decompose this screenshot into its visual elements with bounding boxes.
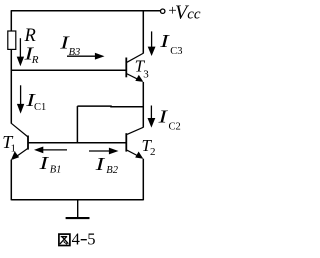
- svg-text:3: 3: [143, 68, 149, 80]
- svg-text:I: I: [157, 107, 168, 127]
- current arrow I_B1: [43, 149, 67, 151]
- current arrow I_C1: [20, 85, 22, 104]
- current arrow I_B3: [67, 55, 96, 57]
- svg-text:2: 2: [150, 146, 156, 158]
- wire left branch upper: [10, 11, 12, 32]
- terminal +Vcc: [161, 9, 165, 13]
- transistor T3: [126, 53, 143, 81]
- transistor T1 (mirrored, base bar on right): [11, 123, 28, 159]
- current arrow I_C2: [150, 106, 152, 119]
- T2 emitter arrowhead: [135, 152, 143, 159]
- ground: [77, 200, 79, 218]
- T1 emitter arrowhead: [11, 151, 19, 160]
- T3 emitter arrowhead: [135, 75, 143, 82]
- svg-text:C1: C1: [34, 102, 46, 113]
- svg-text:I: I: [94, 154, 105, 174]
- wire right branch lower: [142, 159, 144, 201]
- caption glyph 图: [59, 234, 70, 245]
- wire bottom rail: [11, 199, 143, 201]
- svg-text:I: I: [159, 31, 170, 51]
- svg-text:R: R: [31, 54, 39, 66]
- wire top rail: [11, 10, 161, 12]
- current arrow I_B2: [89, 150, 109, 152]
- wire left branch middle: [10, 49, 12, 123]
- svg-text:B3: B3: [69, 47, 81, 58]
- wire L-link horizontal: [77, 105, 143, 108]
- svg-text:5: 5: [87, 229, 95, 248]
- svg-text:I: I: [38, 153, 49, 173]
- wire base rail T1-T2: [28, 142, 126, 144]
- transistor T2: [126, 127, 143, 157]
- current arrow I_R: [19, 38, 21, 57]
- wire right branch middle: [142, 82, 144, 127]
- svg-text:1: 1: [11, 142, 17, 154]
- current arrow I_C3: [151, 31, 153, 47]
- svg-text:B1: B1: [50, 165, 62, 176]
- wire left branch lower: [10, 160, 12, 201]
- svg-text:C2: C2: [169, 122, 181, 133]
- svg-text:B2: B2: [106, 165, 118, 176]
- wire L-link vertical: [76, 106, 78, 143]
- wire right branch upper: [142, 11, 144, 54]
- resistor R: [8, 31, 16, 49]
- svg-text:4: 4: [72, 229, 80, 248]
- wire T3 base rail: [11, 69, 126, 71]
- svg-text:C3: C3: [170, 46, 182, 57]
